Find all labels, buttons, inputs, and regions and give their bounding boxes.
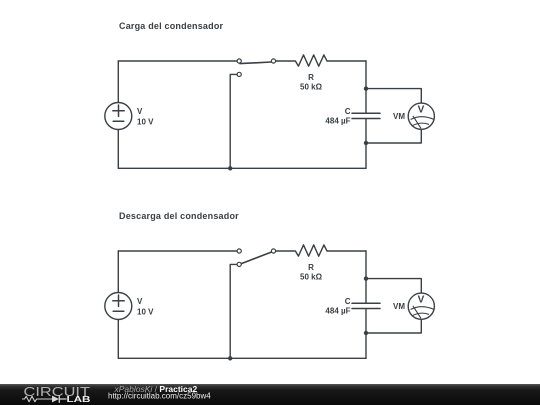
junction node: capacitor/voltmeter bottom (circuit 1) — [364, 141, 368, 145]
voltmeter VM2 body — [408, 293, 434, 319]
wire: left vertical below source V1 — [117, 130, 119, 168]
switch SW1 throw terminal A (top-left) — [237, 59, 241, 63]
wire: left vertical above source V2 — [117, 251, 119, 292]
svg-text:50 kΩ: 50 kΩ — [300, 82, 323, 91]
voltmeter VM1 needle — [413, 116, 421, 128]
svg-text:C: C — [345, 297, 351, 306]
wire: voltmeter bottom branch (circuit 1) — [366, 130, 421, 143]
voltage source V2 plus sign — [113, 295, 124, 306]
capacitor C2 bottom plate — [352, 308, 380, 310]
svg-text:VM: VM — [393, 302, 405, 311]
svg-text:10 V: 10 V — [137, 117, 154, 126]
wire: right vertical from resistor to capacitor top plate (circuit 2) — [365, 251, 367, 303]
footer bar background — [0, 384, 540, 405]
wire: voltmeter bottom branch (circuit 2) — [366, 320, 421, 333]
capacitor C2 top plate — [352, 302, 380, 304]
svg-text:R: R — [308, 73, 314, 82]
switch SW2 throw terminal A (top-left) — [237, 249, 241, 253]
wire: from switch throw C to middle vertical (circuit 2) — [230, 264, 237, 358]
wire: right vertical from capacitor bottom plate to bottom wire (circuit 1) — [365, 119, 367, 168]
svg-text:V: V — [418, 295, 425, 306]
logo glyph: diode bar and lead — [59, 396, 66, 403]
wire: top-left from source to switch (circuit 2) — [118, 250, 237, 252]
wire: right vertical from capacitor bottom plate to bottom wire (circuit 2) — [365, 309, 367, 358]
capacitor C1 top plate — [352, 112, 380, 114]
svg-text:10 V: 10 V — [137, 307, 154, 316]
wire: from switch throw C to middle vertical (circuit 1) — [230, 74, 237, 168]
svg-text:50 kΩ: 50 kΩ — [300, 272, 323, 281]
voltage source V2 body — [105, 293, 132, 320]
wire: left vertical below source V2 — [117, 320, 119, 358]
wire: top-left from source to switch (circuit 1) — [118, 60, 237, 62]
logo glyph: resistor zigzag + diode — [23, 396, 53, 401]
svg-text:V: V — [137, 107, 143, 116]
voltmeter VM1 meter arcs — [411, 117, 434, 126]
switch SW2 pivot terminal B (right) — [271, 249, 275, 253]
switch SW1 throw terminal C (lower-left) — [237, 72, 241, 76]
svg-text:R: R — [308, 263, 314, 272]
svg-text:484 µF: 484 µF — [325, 117, 350, 126]
voltage source V1 body — [105, 103, 132, 130]
svg-text:V: V — [418, 105, 425, 116]
svg-text:http://circuitlab.com/cz59bw4: http://circuitlab.com/cz59bw4 — [108, 392, 211, 401]
svg-text:V: V — [137, 297, 143, 306]
capacitor C1 bottom plate — [352, 118, 380, 120]
svg-text:Descarga del condensador: Descarga del condensador — [119, 211, 239, 221]
voltage source V1 minus sign — [113, 120, 124, 122]
voltmeter VM2 meter arcs — [411, 307, 434, 316]
junction node: capacitor/voltmeter top (circuit 1) — [364, 86, 368, 90]
svg-text:C: C — [345, 107, 351, 116]
voltage source V1 plus sign — [113, 105, 124, 116]
switch SW1 blade (closed to top throw) — [240, 62, 271, 64]
svg-text:484 µF: 484 µF — [325, 307, 350, 316]
wire: voltmeter top branch (circuit 1) — [366, 89, 421, 103]
voltmeter VM1 body — [408, 103, 434, 129]
voltage source V2 minus sign — [113, 310, 124, 312]
wire: right vertical from resistor to capacitor top plate (circuit 1) — [365, 61, 367, 113]
wire: left vertical above source V1 — [117, 61, 119, 102]
wire: voltmeter top branch (circuit 2) — [366, 279, 421, 293]
wire: bottom return (circuit 2) — [118, 357, 366, 359]
svg-text:VM: VM — [393, 112, 405, 121]
svg-text:LAB: LAB — [67, 395, 91, 404]
switch SW2 blade (closed to lower throw) — [241, 252, 271, 264]
svg-text:Carga del condensador: Carga del condensador — [119, 21, 224, 31]
switch SW2 throw terminal C (lower-left) — [237, 262, 241, 266]
junction node: capacitor/voltmeter bottom (circuit 2) — [364, 331, 368, 335]
wire: bottom return (circuit 1) — [118, 167, 366, 169]
junction dot on bottom wire (circuit 1) — [228, 166, 232, 170]
junction node: capacitor/voltmeter top (circuit 2) — [364, 276, 368, 280]
resistor R1 with leads — [276, 55, 366, 66]
switch SW1 pivot terminal B (right) — [271, 59, 275, 63]
voltmeter VM2 needle — [413, 306, 421, 318]
logo glyph: diode triangle — [52, 396, 59, 403]
junction dot on bottom wire (circuit 2) — [228, 356, 232, 360]
resistor R2 with leads — [276, 245, 366, 256]
